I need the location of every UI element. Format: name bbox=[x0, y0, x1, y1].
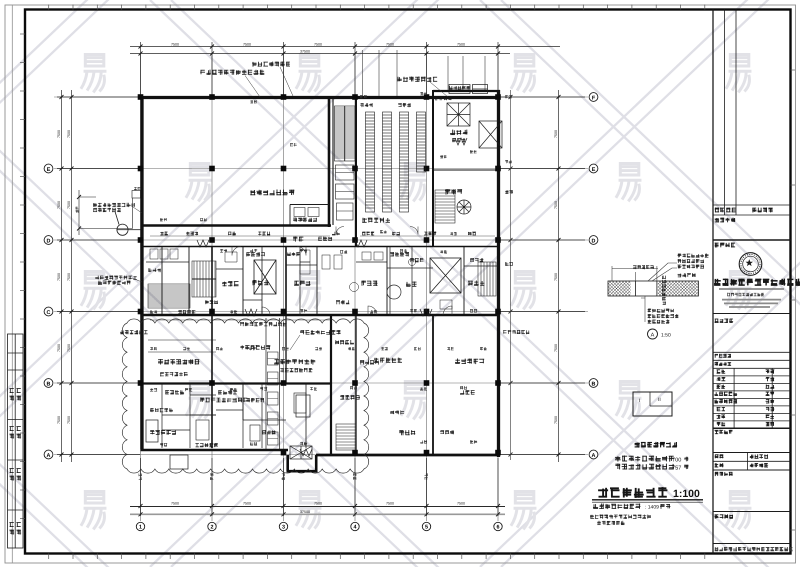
svg-text:7500: 7500 bbox=[457, 502, 465, 506]
address lines bbox=[722, 300, 781, 307]
signature row labels bbox=[717, 370, 726, 374]
svg-text:7500: 7500 bbox=[57, 273, 61, 281]
switchgear rows (substation) bbox=[366, 112, 426, 212]
svg-text:7500: 7500 bbox=[243, 502, 251, 506]
rotated dims at bottom extensions bbox=[139, 473, 142, 480]
owner unit label bbox=[715, 218, 736, 223]
detail dimensions and leaders bbox=[612, 263, 677, 322]
spec row labels bbox=[715, 454, 724, 458]
svg-text:7500: 7500 bbox=[67, 416, 71, 424]
svg-text:A: A bbox=[592, 453, 596, 459]
svg-text:D: D bbox=[47, 238, 51, 244]
inner left thin line bbox=[11, 5, 13, 563]
svg-text:7500: 7500 bbox=[57, 130, 61, 138]
watermark: yi glyphs bbox=[81, 55, 107, 93]
elevator shaft east bbox=[430, 258, 461, 293]
title underline bbox=[592, 500, 703, 502]
stair in substation lower room bbox=[435, 190, 455, 223]
svg-text:B: B bbox=[47, 381, 51, 387]
svg-text:7500: 7500 bbox=[554, 130, 558, 138]
owner box line bbox=[713, 239, 791, 241]
svg-text:1:50: 1:50 bbox=[661, 333, 671, 339]
svg-text:700: 700 bbox=[672, 457, 681, 463]
striped unit east of band bbox=[478, 262, 496, 296]
vent zigzag symbols bbox=[197, 138, 467, 456]
fire compartment area lines bbox=[615, 456, 674, 462]
detail label A 1:50 bbox=[648, 329, 658, 339]
south exit vestibule (U-shaped pit) bbox=[287, 455, 318, 471]
svg-text:E: E bbox=[47, 167, 51, 173]
svg-text:3: 3 bbox=[282, 524, 285, 530]
middle band sub-partitions bbox=[146, 247, 498, 317]
project name box bottom bbox=[713, 351, 791, 353]
svg-text:D: D bbox=[592, 238, 596, 244]
svg-text:1:100: 1:100 bbox=[673, 488, 700, 500]
pipe gallery strip (lower band) bbox=[266, 318, 280, 450]
license sign label bbox=[715, 514, 734, 518]
signature rows bbox=[713, 376, 791, 421]
svg-text:7500: 7500 bbox=[314, 42, 322, 46]
spec/number rows bbox=[713, 453, 791, 471]
revision table columns bbox=[724, 10, 736, 216]
svg-text:7500: 7500 bbox=[386, 502, 394, 506]
svg-text:7500: 7500 bbox=[67, 201, 71, 209]
certificate line bbox=[727, 293, 764, 297]
lower band top dim row bbox=[150, 347, 157, 350]
design unit label bbox=[715, 243, 736, 248]
svg-text:A: A bbox=[47, 453, 51, 459]
striped block west (ramp) bbox=[148, 284, 190, 308]
fan symbol (lower right room of substation) bbox=[457, 200, 471, 214]
notes bbox=[590, 515, 651, 519]
svg-text:7500: 7500 bbox=[457, 42, 465, 46]
scattered interior tiny dims bbox=[290, 143, 297, 146]
svg-text:4: 4 bbox=[354, 524, 357, 530]
svg-text:5: 5 bbox=[425, 524, 428, 530]
svg-text:37500: 37500 bbox=[300, 50, 310, 54]
svg-text:E: E bbox=[592, 167, 596, 173]
room and annotation labels bbox=[250, 190, 294, 196]
svg-text:7500: 7500 bbox=[57, 201, 61, 209]
main drawing title bbox=[598, 487, 667, 498]
revision cloud lower-left bbox=[122, 319, 368, 473]
svg-text:757: 757 bbox=[672, 465, 681, 471]
revision header labels bbox=[715, 208, 725, 213]
door swing arcs bbox=[232, 227, 452, 316]
svg-text:7500: 7500 bbox=[171, 42, 179, 46]
subtitle bbox=[593, 504, 641, 510]
stair west (middle band) bbox=[192, 261, 216, 297]
outer and main walls bbox=[141, 90, 501, 457]
svg-text:7500: 7500 bbox=[554, 416, 558, 424]
svg-text:7500: 7500 bbox=[554, 201, 558, 209]
dimension chains bbox=[57, 42, 585, 516]
stair south (lower band) bbox=[336, 424, 356, 450]
institute name (bold) bbox=[714, 279, 800, 286]
institute seal bbox=[739, 253, 762, 276]
detail marker bubble left bbox=[115, 212, 141, 236]
svg-text:C: C bbox=[47, 310, 51, 316]
small rooms lower-left cluster bbox=[146, 384, 310, 449]
project no label bbox=[715, 354, 731, 358]
institute english line bbox=[719, 288, 784, 290]
title block frame bbox=[713, 10, 791, 554]
left signature strip (hui-qian table) bbox=[8, 334, 24, 548]
svg-text:II: II bbox=[658, 397, 661, 403]
transformer boxes (top right) bbox=[447, 85, 502, 149]
wall waterproofing detail bbox=[608, 281, 698, 296]
svg-text:7500: 7500 bbox=[67, 344, 71, 352]
axis bubbles bbox=[44, 93, 598, 531]
svg-text:7500: 7500 bbox=[554, 344, 558, 352]
lower band tiny dims bbox=[150, 388, 157, 391]
svg-text:7500: 7500 bbox=[57, 344, 61, 352]
svg-text:7500: 7500 bbox=[67, 273, 71, 281]
item name label bbox=[715, 362, 732, 366]
lower-left extra partitions bbox=[148, 340, 306, 448]
secondary right dimension chain bbox=[509, 90, 513, 460]
small wc fixtures row (middle band west) bbox=[150, 249, 310, 262]
corridor tiny label row bbox=[160, 232, 168, 236]
column squares bbox=[138, 94, 501, 455]
svg-text:1: 1 bbox=[139, 524, 142, 530]
elevator shaft west bbox=[254, 260, 276, 294]
vestibule stair box with cross bracing bbox=[290, 446, 312, 459]
svg-text:7500: 7500 bbox=[386, 42, 394, 46]
structural grid lines bbox=[54, 54, 588, 522]
project name label bbox=[715, 319, 734, 323]
svg-text:7500: 7500 bbox=[554, 273, 558, 281]
small exterior box bottom-left bbox=[170, 455, 188, 469]
svg-text:A: A bbox=[651, 332, 655, 338]
completion label bbox=[715, 430, 733, 434]
annotation leader lines bbox=[130, 76, 448, 351]
copyright note bbox=[715, 547, 793, 551]
misc fixture marks in band bbox=[300, 247, 452, 317]
svg-text:: 1409: : 1409 bbox=[645, 505, 659, 511]
middle band tiny dims bbox=[220, 249, 227, 252]
small circle marker near corridor bbox=[387, 285, 401, 299]
fire compartment caption (bold) bbox=[635, 442, 678, 448]
sub-room in big room SE corner bbox=[290, 205, 329, 226]
svg-text:37500: 37500 bbox=[300, 510, 310, 514]
svg-text:7500: 7500 bbox=[171, 502, 179, 506]
stamp label bbox=[715, 472, 733, 476]
stairwell ladder (center strip) bbox=[335, 106, 356, 220]
svg-text:7500: 7500 bbox=[314, 502, 322, 506]
svg-text:B: B bbox=[592, 381, 596, 387]
svg-text:7500: 7500 bbox=[243, 42, 251, 46]
svg-text:7500: 7500 bbox=[57, 416, 61, 424]
svg-text:7500: 7500 bbox=[67, 130, 71, 138]
dimension numbers bbox=[57, 42, 558, 514]
svg-text:2: 2 bbox=[211, 524, 214, 530]
misc inner dim ticks along corridor bbox=[150, 236, 495, 320]
top annotation 3 bbox=[252, 62, 290, 67]
institute box bottom bbox=[713, 313, 791, 315]
cold room label 2 bbox=[374, 358, 402, 363]
left annex dim frame bbox=[77, 190, 141, 235]
key plan (fire compartments) bbox=[633, 392, 672, 416]
svg-text:6: 6 bbox=[497, 524, 500, 530]
svg-text:I: I bbox=[639, 398, 640, 404]
